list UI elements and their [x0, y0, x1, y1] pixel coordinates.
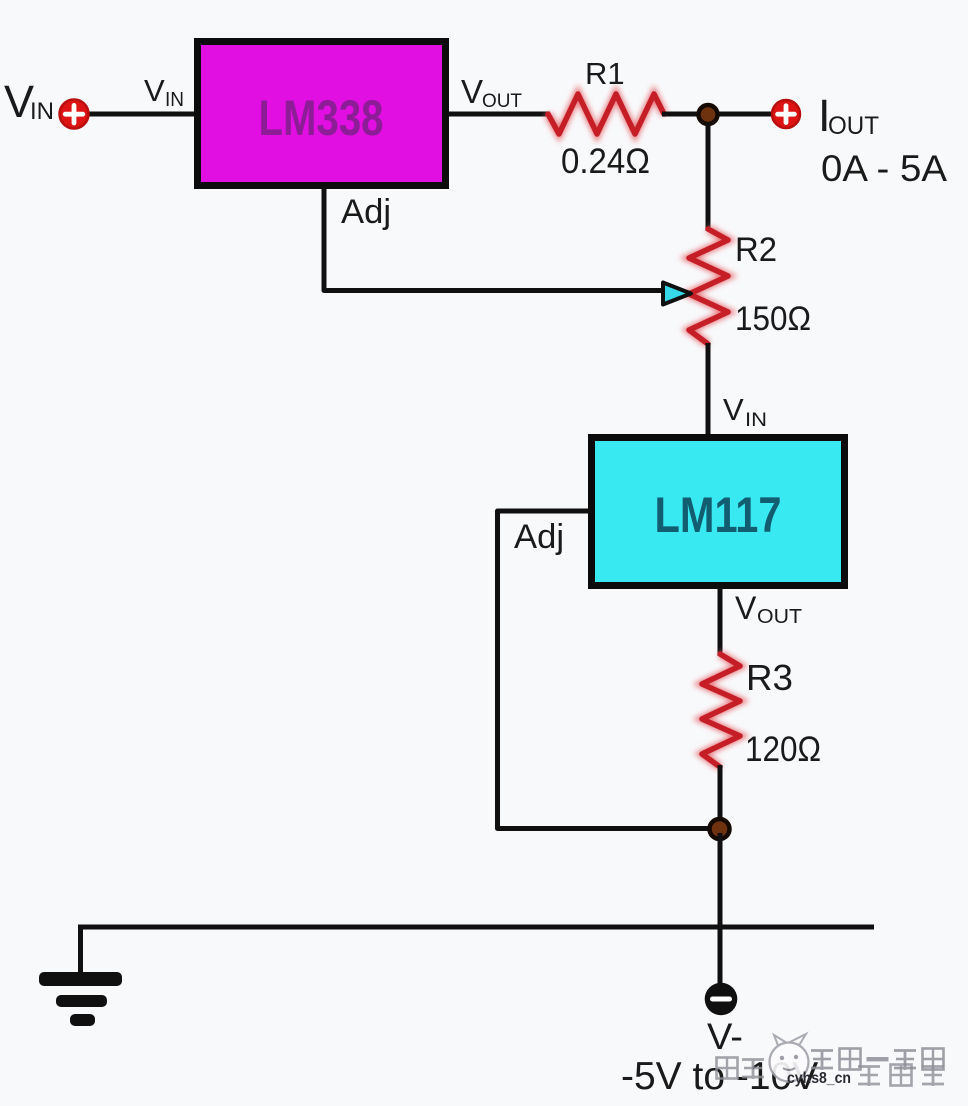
wire node B to V- terminal — [718, 833, 723, 985]
resistor R3 — [702, 654, 740, 767]
wire LM338 out to R1 — [448, 112, 550, 117]
wire R2 to LM117 VIN — [706, 343, 711, 436]
wire node A to IOUT terminal — [714, 112, 772, 117]
svg-text:R3: R3 — [746, 657, 793, 698]
label VOUT pin U1 — [461, 73, 522, 112]
regulator U2 LM117 — [592, 438, 845, 586]
wire node A down to R2 — [706, 122, 711, 231]
svg-text:OUT: OUT — [757, 606, 802, 628]
potentiometer R2 — [689, 229, 728, 344]
label voltage range -5V to -10V — [621, 1055, 818, 1098]
label IOUT — [818, 90, 879, 141]
label Adj U1 — [341, 193, 391, 231]
svg-text:OUT: OUT — [482, 91, 522, 112]
wire bottom rail — [78, 925, 874, 930]
watermark logo — [770, 1034, 809, 1082]
label VIN pin — [144, 73, 184, 111]
svg-text:Adj: Adj — [341, 193, 391, 231]
watermark account id — [787, 1070, 851, 1087]
regulator U1 LM338 — [198, 42, 446, 186]
label R2 value — [735, 300, 811, 338]
svg-text:0.24Ω: 0.24Ω — [561, 142, 650, 181]
label VIN pin U2 — [723, 392, 767, 431]
terminal VIN + — [60, 100, 89, 129]
svg-text:V: V — [461, 73, 483, 110]
label VIN source — [4, 76, 54, 127]
svg-text:R1: R1 — [585, 56, 625, 91]
svg-text:OUT: OUT — [828, 112, 879, 140]
svg-text:V-: V- — [707, 1016, 743, 1057]
wire R1 to node A — [662, 112, 700, 117]
label R3 — [746, 657, 793, 698]
label R2 — [735, 231, 777, 269]
ground — [39, 972, 122, 1026]
label current range 0A - 5A — [821, 148, 947, 189]
resistor R1 — [548, 94, 664, 134]
label R1 value — [561, 142, 650, 181]
wire LM117 out to R3 — [718, 587, 723, 656]
svg-text:Adj: Adj — [514, 518, 564, 556]
svg-text:LM338: LM338 — [259, 90, 384, 146]
svg-text:R2: R2 — [735, 231, 777, 269]
node A — [699, 105, 718, 124]
wire R3 to node B — [718, 765, 723, 826]
svg-text:0A - 5A: 0A - 5A — [821, 148, 947, 189]
wire VIN source to LM338 — [86, 112, 198, 117]
wire U1 Adj to wiper — [324, 186, 662, 291]
label R1 — [585, 56, 625, 91]
svg-text:150Ω: 150Ω — [735, 300, 811, 338]
terminal IOUT + — [772, 100, 800, 128]
svg-text:cyhs8_cn: cyhs8_cn — [787, 1070, 851, 1087]
watermark brand CJK dianlu yidiantong — [811, 1049, 944, 1071]
label VOUT pin U2 — [735, 590, 802, 628]
svg-text:IN: IN — [30, 98, 54, 125]
label V- — [707, 1016, 743, 1057]
wiper arrow of R2 — [663, 283, 691, 305]
label R3 value — [745, 730, 821, 769]
svg-text:V: V — [144, 73, 165, 108]
wire U2 Adj loop to node B — [498, 511, 713, 829]
node B — [710, 819, 730, 839]
watermark toutiao CJK — [717, 1058, 765, 1080]
svg-text:120Ω: 120Ω — [745, 730, 821, 769]
svg-text:LM117: LM117 — [655, 487, 782, 543]
label Adj U2 — [514, 518, 564, 556]
svg-text:IN: IN — [165, 89, 184, 111]
terminal V- — [705, 983, 738, 1016]
svg-text:V: V — [735, 590, 757, 626]
watermark CJK components — [858, 1065, 944, 1087]
svg-text:IN: IN — [745, 410, 767, 431]
wire rail to ground — [78, 925, 83, 973]
svg-text:V: V — [723, 392, 744, 427]
